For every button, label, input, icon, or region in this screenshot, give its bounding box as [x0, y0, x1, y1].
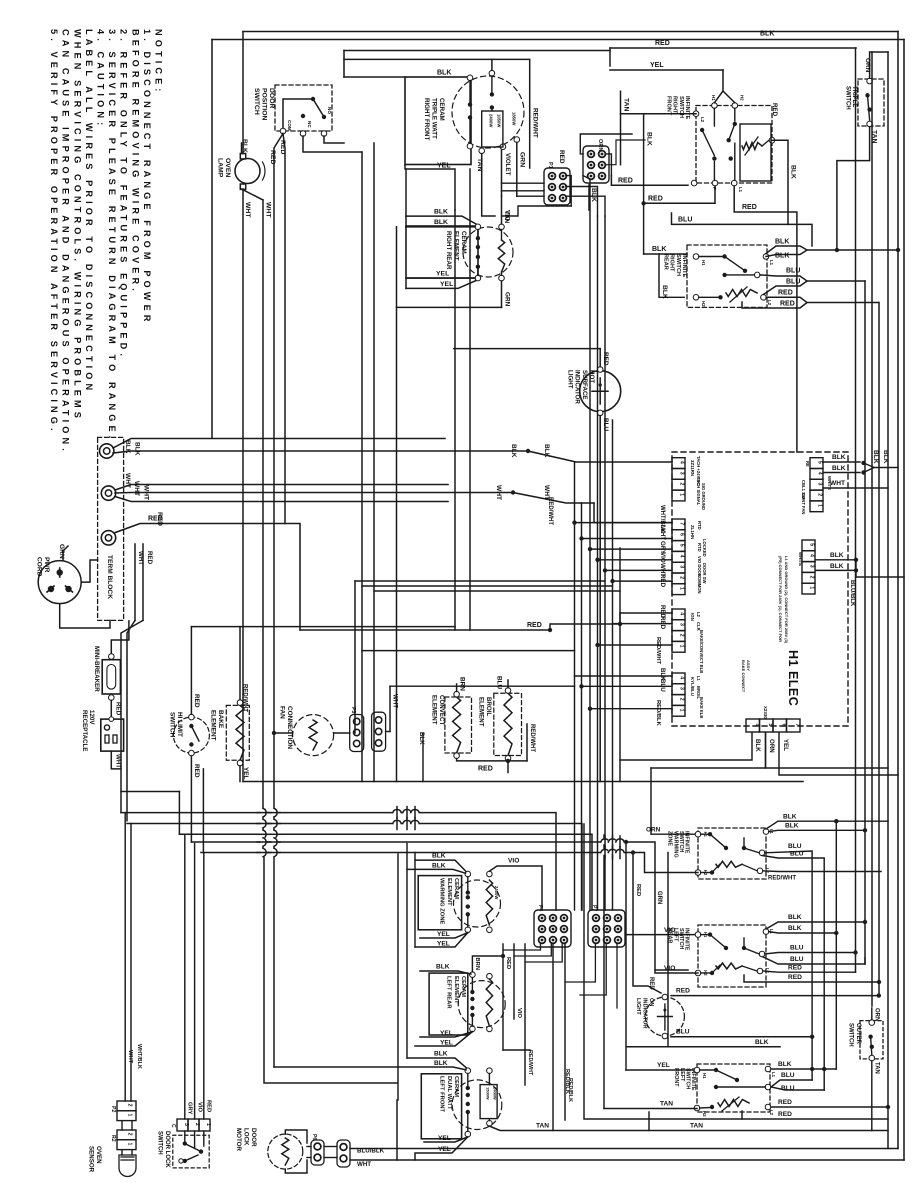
svg-text:H1: H1: [711, 95, 716, 101]
connector C5 strip: [372, 712, 386, 751]
svg-text:CONT FAN: CONT FAN: [801, 493, 806, 514]
svg-text:YEL: YEL: [437, 931, 450, 938]
wire hop bumps: [257, 807, 624, 859]
svg-text:RED: RED: [771, 103, 778, 117]
svg-text:VIO: VIO: [664, 965, 675, 972]
svg-text:1050W: 1050W: [497, 114, 502, 127]
svg-text:NOTICE:: NOTICE:: [154, 29, 164, 95]
wire VIO to P2: [595, 552, 672, 563]
wire GRN pwr cord: [58, 544, 68, 561]
svg-text:BROIL: BROIL: [485, 697, 492, 716]
broil element zigzag: [504, 693, 512, 755]
svg-text:4: 4: [679, 461, 685, 464]
wire WHT below receptacle: [111, 751, 121, 769]
connector P2 oven sensor: [110, 1101, 136, 1121]
svg-text:2400W: 2400W: [493, 1087, 498, 1100]
receptacle label: [81, 710, 95, 751]
svg-text:RED: RED: [659, 574, 666, 588]
svg-text:1: 1: [127, 1143, 133, 1146]
wire RED below broil: [457, 759, 527, 773]
mid horizontal 581: [355, 580, 605, 582]
svg-text:P2: P2: [110, 1106, 116, 1112]
svg-text:(P5) CONNECT FOR 240V (1), CON: (P5) CONNECT FOR 240V (1), CONNECT FOR: [778, 556, 783, 642]
wire BLU out warming 2: [763, 850, 824, 1090]
wire RED from door switch: [269, 134, 286, 851]
svg-text:BLK: BLK: [434, 1060, 448, 1067]
svg-text:TAN: TAN: [623, 98, 630, 112]
wire RED above hi limit: [191, 627, 200, 715]
svg-text:ORN: ORN: [597, 139, 603, 151]
svg-text:4. CAUTION:: 4. CAUTION:: [96, 29, 106, 129]
wire BLK from P9 2: [823, 463, 874, 475]
bake element terminals: [237, 700, 243, 766]
svg-text:YEL: YEL: [440, 281, 453, 288]
svg-text:BLK: BLK: [790, 165, 797, 179]
svg-text:RED: RED: [648, 977, 654, 990]
svg-text:RED/BLK: RED/BLK: [564, 1069, 570, 1094]
svg-text:FAN: FAN: [278, 706, 285, 719]
mid vertical 362: [361, 152, 363, 782]
wire RED-BLK bottom vertical: [565, 944, 573, 1120]
svg-text:ELEMENT: ELEMENT: [477, 697, 484, 727]
bus B4: [191, 842, 688, 970]
mid horizontal 662: [390, 685, 575, 687]
wire WHT to P2: [579, 526, 672, 541]
svg-text:H1: H1: [702, 1073, 707, 1079]
mid vertical 350: [354, 581, 356, 733]
svg-text:RED: RED: [505, 957, 511, 969]
connector C1: [544, 168, 570, 205]
svg-text:H1: H1: [703, 932, 708, 938]
bundle A wire 1: [574, 462, 576, 910]
infinite switch left front box: [697, 1064, 770, 1112]
svg-text:H1 ELEC: H1 ELEC: [786, 650, 800, 706]
svg-text:BLU: BLU: [790, 945, 804, 952]
svg-text:RED/WHT: RED/WHT: [655, 637, 661, 665]
wire BLU out inf RR 2: [763, 279, 865, 295]
svg-text:BLK: BLK: [418, 732, 425, 745]
wire BLK from P9 1: [823, 454, 866, 465]
wire BLU-BLK from P6: [350, 1148, 898, 1155]
svg-text:CONVECT: CONVECT: [438, 695, 445, 725]
svg-text:TAN: TAN: [690, 1123, 703, 1130]
outer switch terminals: [869, 1020, 875, 1061]
door position switch box: [275, 85, 332, 131]
wire YEL into inf RF: [714, 70, 734, 103]
wire YEL below bake: [240, 766, 249, 782]
mid horizontal 627: [191, 626, 455, 628]
wire RED to P3 2: [613, 616, 673, 630]
wire RED mid: [0, 0, 1, 1]
wire YEL label ceramic RF: [437, 163, 451, 170]
svg-text:NC: NC: [307, 121, 312, 128]
wire right rear bottom horizontal: [397, 306, 502, 308]
wire TAN left front: [489, 1123, 888, 1131]
inf sw RR dots: [718, 254, 747, 299]
on indicator light label: [635, 998, 654, 1029]
svg-text:RED: RED: [788, 974, 802, 981]
svg-text:CERAM: CERAM: [438, 98, 445, 121]
wire ORN outer switch: [872, 1008, 880, 1021]
ceramic right rear dashed circle: [463, 227, 513, 277]
mid vertical 264: [262, 200, 264, 850]
triple switch terminals: [867, 78, 873, 127]
mid vertical 406: [405, 169, 407, 288]
bottom right vertical 553: [552, 944, 554, 1131]
svg-text:H2: H2: [702, 1111, 707, 1117]
svg-text:HOT: HOT: [588, 370, 595, 383]
svg-text:P7: P7: [591, 905, 597, 911]
svg-text:1: 1: [679, 587, 685, 590]
wire WHT to oven sensor: [125, 813, 133, 1101]
svg-text:YEL: YEL: [436, 270, 449, 277]
svg-text:BRN: BRN: [474, 958, 480, 971]
svg-text:3: 3: [679, 565, 685, 568]
wire BRN left rear: [472, 954, 505, 972]
svg-text:H2: H2: [703, 870, 708, 876]
svg-text:LAMP: LAMP: [216, 158, 223, 178]
svg-text:SURFACE: SURFACE: [581, 370, 588, 400]
inf left rear pin labels: [703, 929, 774, 976]
svg-text:ORN: ORN: [768, 739, 775, 753]
broil element label: [477, 697, 492, 727]
svg-text:P6: P6: [311, 1134, 317, 1140]
svg-text:5: 5: [809, 543, 815, 546]
door lock motor label: [235, 1128, 257, 1151]
svg-text:RED: RED: [146, 551, 153, 565]
receptacle inner: [104, 717, 117, 743]
svg-text:RED/WHT: RED/WHT: [527, 1050, 533, 1076]
wire BLK out left rear 2: [769, 925, 839, 935]
wire BLU out left rear 2: [763, 956, 865, 964]
wire RED-WHT right of broil: [527, 724, 535, 761]
warming zone inner wires: [468, 877, 493, 927]
hot surface light terminals: [597, 367, 603, 416]
svg-text:BLK: BLK: [434, 219, 448, 226]
svg-text:RED/WHT: RED/WHT: [242, 684, 248, 712]
frame left upper vertical: [211, 40, 213, 439]
top horizontal 50: [344, 50, 610, 52]
board pin strip P2: [672, 519, 685, 595]
wire BLK on light row: [627, 853, 780, 1047]
connector P5 strip: [350, 715, 364, 752]
inf left front switch lines: [700, 1070, 765, 1108]
pwr cord circle: [38, 561, 81, 604]
left front dots: [466, 1086, 470, 1114]
wire branch to bus3: [121, 791, 179, 793]
inf warming switch lines: [701, 834, 759, 872]
svg-text:INFINITE: INFINITE: [684, 96, 690, 120]
svg-text:H1: H1: [703, 832, 708, 838]
svg-text:VIOLET: VIOLET: [504, 153, 511, 176]
svg-text:LEFT FRONT: LEFT FRONT: [439, 1076, 445, 1113]
wire RED to door lock switch: [204, 853, 212, 1120]
svg-text:2: 2: [679, 483, 685, 486]
svg-text:1: 1: [679, 709, 685, 712]
svg-text:POSITION: POSITION: [260, 88, 267, 121]
wire RED below hi limit: [191, 756, 200, 842]
svg-text:ELEMENT: ELEMENT: [446, 878, 452, 906]
svg-text:1: 1: [127, 1114, 133, 1117]
svg-text:INFINITE: INFINITE: [681, 254, 687, 278]
mid horizontal 591: [374, 590, 620, 592]
right vertical ORN: [871, 52, 873, 1006]
svg-text:RED: RED: [269, 150, 276, 164]
infinite switch left rear label: [667, 928, 690, 951]
H1 ELEC label: [786, 650, 800, 706]
wire BLU-BLK right: [849, 560, 904, 607]
svg-text:BLU: BLU: [786, 279, 800, 286]
svg-text:DUAL WATT: DUAL WATT: [446, 1076, 452, 1110]
broil element box: [494, 693, 522, 755]
svg-text:1: 1: [809, 586, 815, 589]
svg-text:1: 1: [679, 493, 685, 496]
svg-text:5: 5: [679, 544, 685, 547]
mini-breaker terminals: [109, 654, 115, 701]
wires out of P1: [580, 134, 645, 205]
mid horizontal 586: [362, 585, 613, 587]
wire YEL top: [610, 62, 723, 70]
wire BLK inf RF right: [772, 140, 797, 224]
wire BLK pair left front: [274, 1051, 467, 1070]
svg-text:CORD: CORD: [35, 557, 42, 577]
svg-text:LIGHT: LIGHT: [566, 370, 573, 389]
connector P7 grid: [588, 905, 625, 947]
svg-text:LOCK: LOCK: [242, 1128, 249, 1146]
svg-text:L2: L2: [767, 300, 772, 306]
term block dashed box: [98, 437, 124, 620]
svg-text:RIGHT: RIGHT: [672, 96, 678, 114]
svg-text:3: 3: [809, 565, 815, 568]
wire BLU right of on light: [671, 1029, 814, 1039]
svg-text:RED: RED: [788, 964, 802, 971]
wire YEL pair warming: [415, 931, 468, 948]
inf warming resistor: [712, 861, 757, 872]
inf sw RF terminals: [691, 103, 775, 186]
wire BLU below hot light: [600, 416, 609, 782]
svg-text:VIO: VIO: [659, 552, 666, 563]
svg-text:X2330: X2330: [763, 706, 768, 719]
svg-text:RED: RED: [618, 177, 633, 184]
wire GRY to door lock switch: [185, 834, 193, 1119]
wire BLK pair from ring: [113, 439, 528, 456]
svg-text:RED: RED: [478, 766, 493, 773]
svg-text:3: 3: [817, 483, 823, 486]
top horizontal 59: [344, 58, 492, 60]
svg-text:IGN: IGN: [690, 613, 695, 621]
junction BLK: [510, 444, 672, 462]
wire BLK out inf RR 1: [766, 239, 807, 254]
svg-text:RED: RED: [778, 1111, 792, 1118]
wire ORN P4b link: [651, 733, 766, 769]
left vertical 398 bottom: [397, 854, 399, 1100]
bundle A wire 6: [612, 420, 614, 910]
wire ORN into warming switch: [646, 768, 698, 834]
pwr cord prongs: [47, 568, 73, 592]
svg-text:BAKE: BAKE: [217, 710, 224, 729]
wires out of C1 right: [502, 176, 605, 224]
svg-text:WHT: WHT: [137, 551, 144, 565]
ceramic right front inner dots: [468, 92, 494, 120]
ceramic right rear zigzag: [498, 230, 504, 276]
outer switch box: [860, 1021, 883, 1059]
bundle A wire 2: [581, 503, 583, 910]
infinite switch right front label: [665, 96, 690, 120]
svg-text:YEL: YEL: [438, 1135, 451, 1142]
triple switch dots: [865, 93, 872, 120]
wire YEL to left front sw: [626, 1062, 697, 1070]
term block label: [106, 555, 113, 599]
wire ORN triple switch: [864, 52, 888, 78]
inf warming dots: [708, 832, 746, 875]
left vertical 415 bottom: [414, 853, 416, 948]
svg-text:3. SERVICER PLEASE RETURN DIAG: 3. SERVICER PLEASE RETURN DIAGRAM TO RAN…: [107, 29, 117, 442]
wire GRN bus drop: [201, 853, 698, 905]
mid vertical 396: [396, 227, 398, 782]
ring terminal WHT: [101, 486, 115, 500]
svg-text:KYL/BLU: KYL/BLU: [690, 677, 695, 696]
svg-text:RED: RED: [742, 204, 757, 211]
ceramic right rear label: [445, 231, 467, 270]
svg-text:DOOR: DOOR: [268, 88, 275, 108]
svg-text:BLU: BLU: [678, 216, 692, 223]
right vertical 856: [855, 48, 857, 972]
svg-text:ON: ON: [648, 998, 654, 1006]
svg-text:120V: 120V: [88, 710, 95, 725]
board pin strip P6b texts: [690, 676, 704, 718]
svg-text:L2: L2: [696, 612, 701, 618]
door lock motor coil: [282, 1138, 289, 1165]
svg-text:3: 3: [679, 687, 685, 690]
svg-text:L1: L1: [696, 676, 701, 682]
receptacle box: [101, 719, 124, 751]
svg-text:TAN: TAN: [660, 1101, 673, 1108]
ceramic right rear element box: [406, 226, 478, 278]
svg-text:RED: RED: [655, 40, 670, 47]
wire TAN below ceramic RF: [476, 154, 495, 216]
wire BLU to P6b: [579, 679, 672, 692]
left front label: [439, 1076, 459, 1113]
connector P1: [583, 146, 609, 183]
svg-text:ELEMENT: ELEMENT: [453, 231, 460, 261]
svg-text:BLK: BLK: [788, 914, 802, 921]
frame top line outer: [212, 39, 904, 41]
inf sw RF dots: [700, 122, 737, 161]
svg-text:1: 1: [817, 504, 823, 507]
svg-text:RED: RED: [558, 150, 565, 164]
wire BLK inf RR left lower: [659, 254, 684, 299]
svg-text:RED/WHT: RED/WHT: [532, 108, 539, 138]
svg-text:TERM BLOCK: TERM BLOCK: [106, 555, 113, 599]
svg-text:L1: L1: [738, 187, 743, 193]
svg-text:RED: RED: [148, 516, 163, 523]
svg-text:WHT: WHT: [127, 1050, 133, 1064]
wire BLU out warming 1: [765, 843, 812, 1080]
svg-text:BLU/BLK: BLU/BLK: [849, 580, 855, 607]
svg-text:TAN: TAN: [874, 1062, 880, 1074]
wire RED-BLK to P6b: [588, 700, 672, 727]
svg-text:BLU: BLU: [676, 1029, 690, 1036]
wires down from term block: [135, 544, 153, 620]
svg-text:2: 2: [127, 1133, 133, 1136]
wire ORN below P4b: [766, 733, 889, 769]
svg-text:BLK: BLK: [436, 964, 450, 971]
svg-text:OUTER: OUTER: [855, 1023, 861, 1045]
svg-text:RED/BLK: RED/BLK: [655, 700, 661, 727]
svg-text:CONNECTION: CONNECTION: [286, 706, 293, 749]
svg-text:BLK: BLK: [754, 739, 761, 752]
wire term block to breaker: [111, 621, 129, 654]
bus B3: [179, 834, 592, 910]
wire BLK to P6b: [575, 668, 673, 681]
svg-text:RIGHT: RIGHT: [669, 254, 675, 272]
svg-text:BLK: BLK: [872, 450, 879, 464]
wire WHT near C5: [386, 686, 399, 731]
svg-text:TRIPLE WATT: TRIPLE WATT: [431, 98, 438, 139]
left rear inner wires: [472, 978, 492, 1027]
svg-text:RE: RE: [805, 461, 810, 467]
svg-text:BLK: BLK: [755, 1039, 769, 1046]
left front inner wires: [468, 1074, 490, 1132]
svg-text:BLK: BLK: [832, 465, 846, 472]
inf warming terminals: [695, 829, 769, 876]
svg-text:YEL: YEL: [782, 739, 789, 751]
wire TAN triple switch: [835, 127, 878, 253]
svg-text:P4: P4: [537, 905, 543, 911]
wire YEL pair left rear: [415, 1030, 472, 1047]
mid vertical 243: [0, 0, 1, 1]
wire RED inf RF out2: [734, 186, 797, 452]
board pin strip P3 texts: [690, 612, 704, 673]
svg-text:RED: RED: [676, 988, 690, 995]
warming zone element box: [418, 876, 461, 930]
wire BLK above oven lamp: [241, 139, 248, 154]
wire WHT-BLK to oven sensor: [131, 824, 142, 1102]
door lock switch box: [173, 1135, 209, 1168]
svg-text:6: 6: [679, 533, 685, 536]
wire GRN below right rear: [502, 281, 511, 307]
wire into fan left: [272, 731, 293, 735]
mini-breaker box: [102, 660, 120, 694]
door position switch pin labels: [287, 107, 332, 131]
right vertical 867: [864, 281, 866, 964]
left vertical 407 bottom: [406, 844, 408, 1059]
wire VIO warming: [489, 858, 542, 911]
wire from door switch NC down: [303, 136, 362, 152]
board pin strip P6b: [672, 673, 685, 716]
board pin strip P9: [810, 458, 823, 512]
wires below P7 grid: [565, 944, 617, 1008]
svg-text:YEL: YEL: [440, 1030, 453, 1037]
svg-text:7: 7: [794, 724, 800, 727]
wire WHT from oven lamp: [242, 189, 272, 782]
pwr cord label: [35, 557, 50, 577]
connector P6 door motor: [311, 1134, 324, 1165]
left rear dots: [470, 990, 474, 1017]
wire RED from ring: [114, 512, 300, 630]
wire RED out left front 2: [742, 1111, 888, 1119]
svg-text:RTD: RTD: [697, 543, 702, 552]
on indicator lamp: [658, 1004, 673, 1030]
svg-text:BLU: BLU: [496, 676, 503, 690]
inf sw RR pilot resistor: [726, 287, 757, 302]
svg-text:RECEPTACLE: RECEPTACLE: [81, 710, 88, 751]
door position switch label: [253, 88, 275, 121]
bake element label: [209, 710, 224, 741]
svg-text:1850W: 1850W: [512, 112, 517, 125]
svg-text:BLU: BLU: [790, 956, 804, 963]
svg-text:4: 4: [809, 554, 815, 557]
